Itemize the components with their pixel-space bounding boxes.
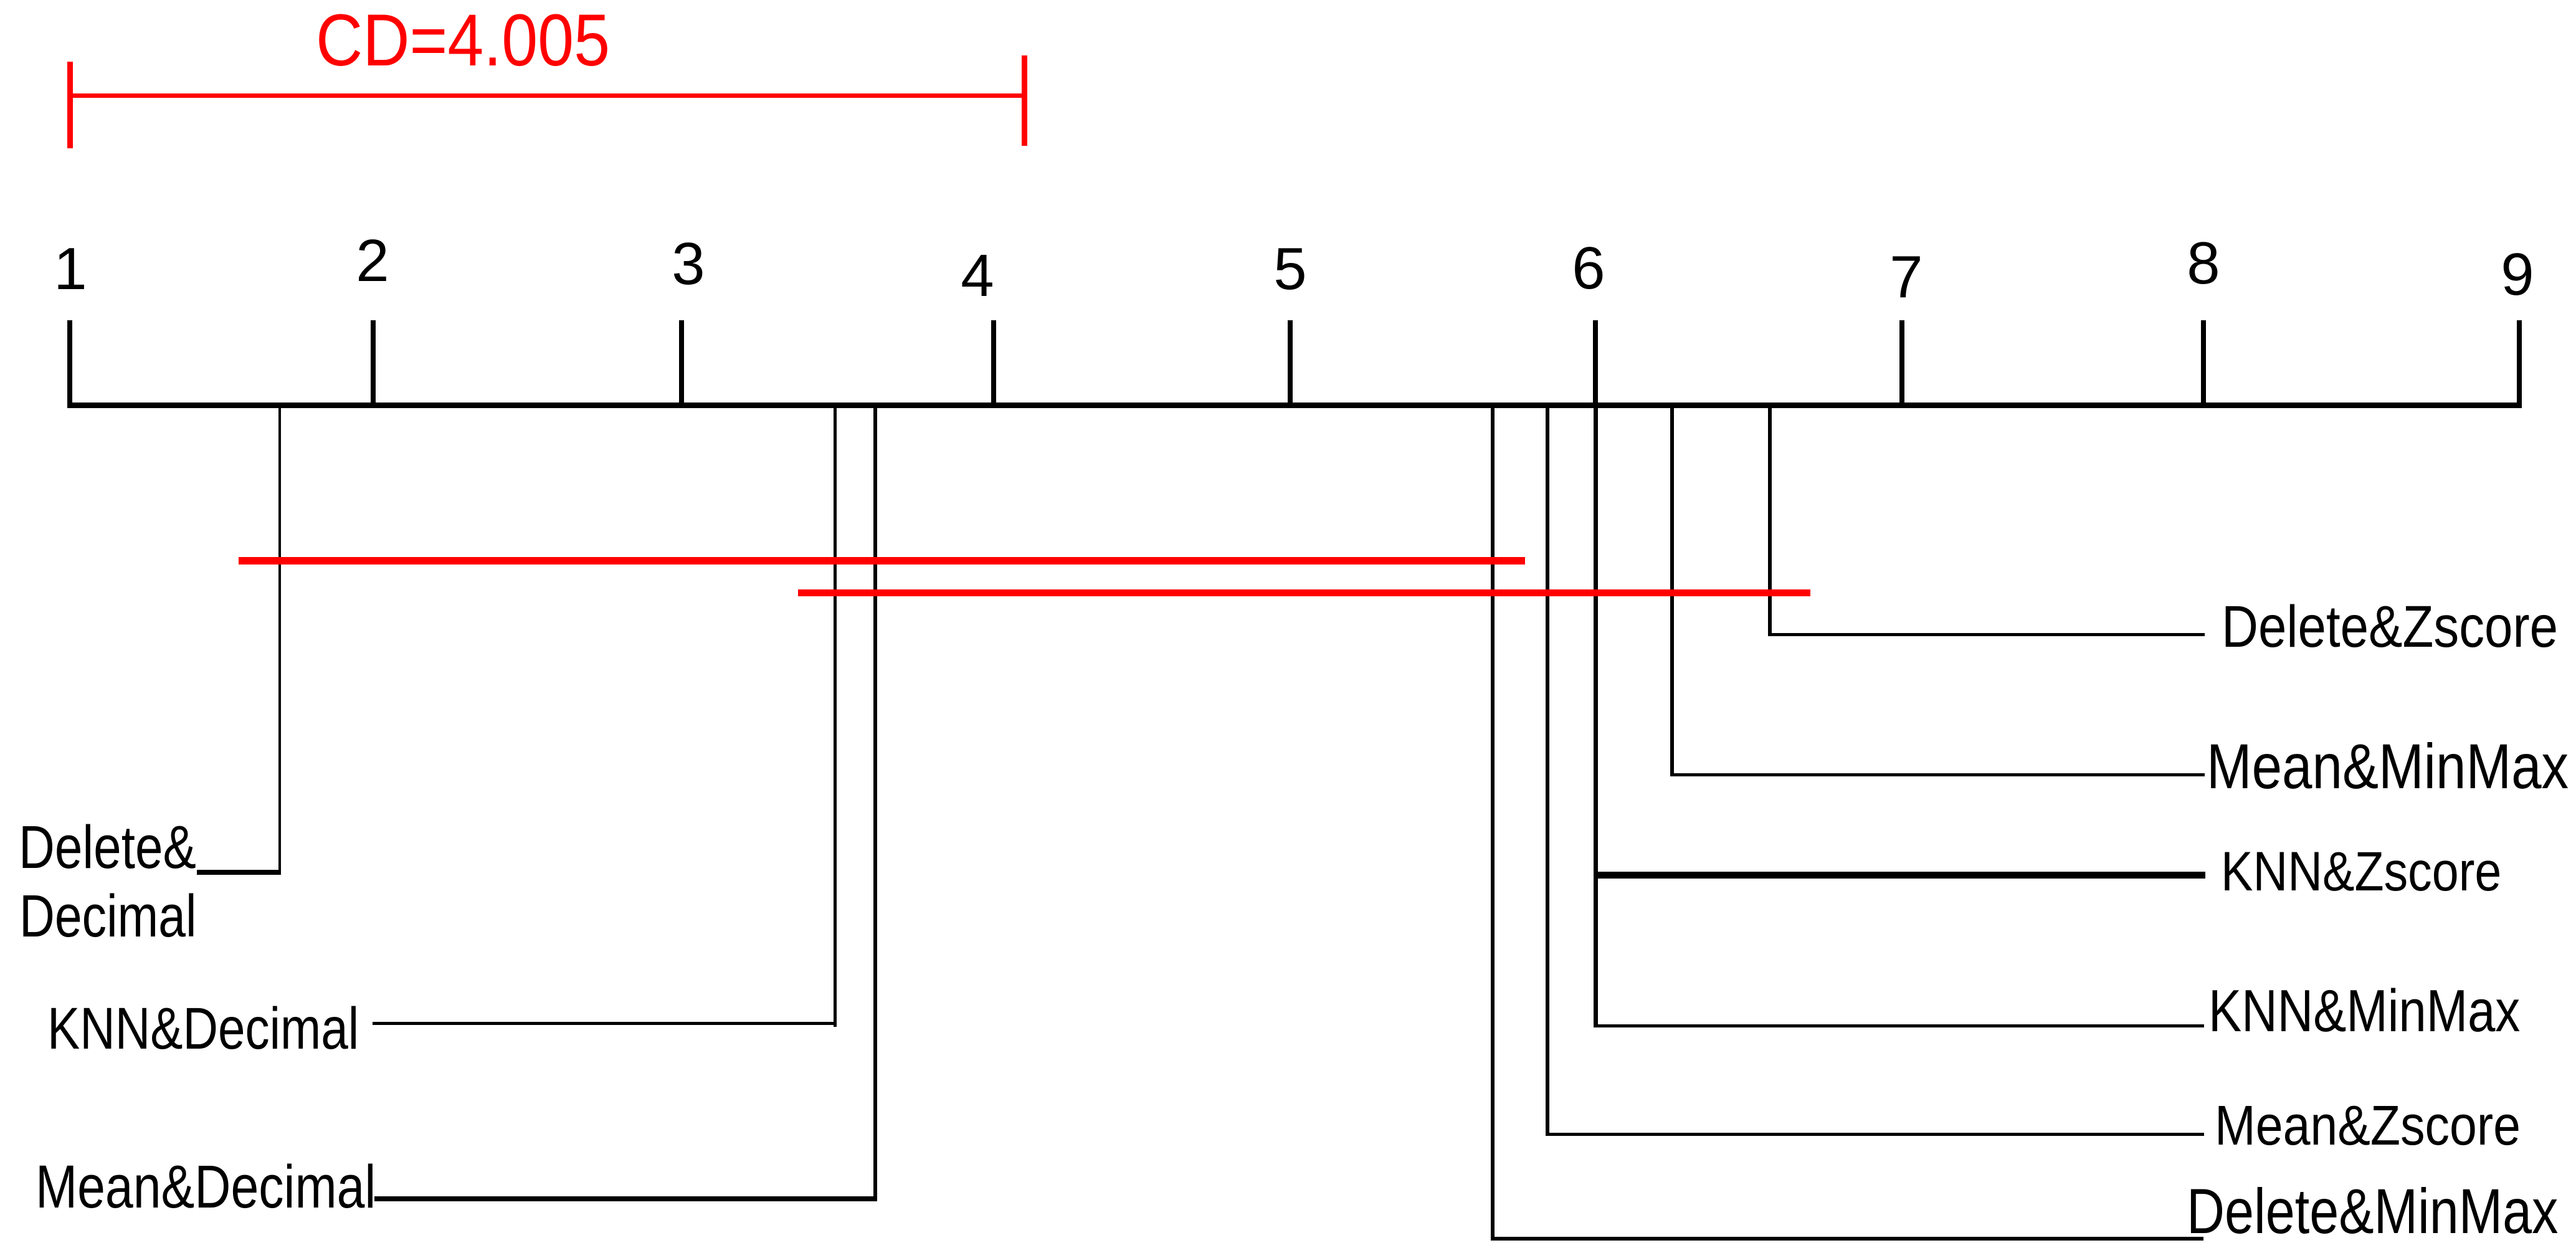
tick 8 [2201, 320, 2206, 405]
Mean&Decimal connector [374, 1196, 877, 1201]
axis number 1 [54, 239, 87, 299]
clique line 2 [798, 589, 1810, 596]
Mean&Zscore connector [1546, 1133, 2204, 1136]
axis number 5 [1273, 239, 1306, 299]
tick 3 [679, 320, 684, 405]
label KNN&Decimal [47, 999, 359, 1058]
label KNN&Zscore [2221, 844, 2501, 900]
CD bar right tick [1022, 55, 1027, 146]
tick 5 [1288, 320, 1293, 405]
tick 9 [2517, 320, 2522, 405]
clique line 1 [239, 557, 1525, 565]
Delete&MinMax connector [1491, 1237, 2203, 1241]
tick 6 [1593, 320, 1598, 405]
Delete&Decimal connector [197, 870, 281, 875]
Mean&Decimal drop line [873, 408, 877, 1201]
KNN&Zscore connector [1596, 872, 2205, 879]
Delete&Zscore connector [1768, 633, 2205, 636]
KNN&Decimal connector [373, 1022, 837, 1025]
axis number 9 [2501, 245, 2534, 305]
axis number 3 [672, 234, 705, 294]
label Delete& (line 1) [19, 817, 196, 877]
tick 1 [67, 320, 72, 405]
label Delete&MinMax [2187, 1180, 2558, 1244]
tick 2 [371, 320, 376, 405]
label Mean&Zscore [2215, 1098, 2521, 1154]
KNN&MinMax drop line [1594, 408, 1598, 1027]
CD bar line [70, 93, 1025, 98]
CD value label [316, 4, 610, 77]
Mean&MinMax drop line [1670, 408, 1674, 776]
label Mean&MinMax [2207, 735, 2569, 799]
label Delete&Zscore [2222, 598, 2558, 656]
label Decimal (line 2) [19, 887, 196, 946]
tick 4 [991, 320, 996, 405]
axis number 2 [356, 231, 389, 291]
tick 7 [1899, 320, 1904, 405]
label KNN&MinMax [2208, 981, 2520, 1041]
Delete&Zscore drop line [1768, 408, 1772, 636]
label Mean&Decimal [36, 1156, 376, 1217]
axis number 4 [961, 246, 994, 306]
KNN&MinMax connector [1594, 1024, 2204, 1027]
axis number 8 [2187, 234, 2220, 293]
Mean&Zscore drop line [1546, 408, 1549, 1136]
CD bar left tick [67, 62, 73, 148]
Delete&MinMax drop line [1491, 408, 1495, 1241]
axis number 7 [1889, 247, 1922, 307]
Delete&Decimal drop line [278, 408, 281, 875]
KNN&Decimal drop line [834, 408, 837, 1027]
axis main line [67, 403, 2522, 408]
Mean&MinMax connector [1670, 773, 2205, 776]
axis number 6 [1572, 239, 1605, 298]
